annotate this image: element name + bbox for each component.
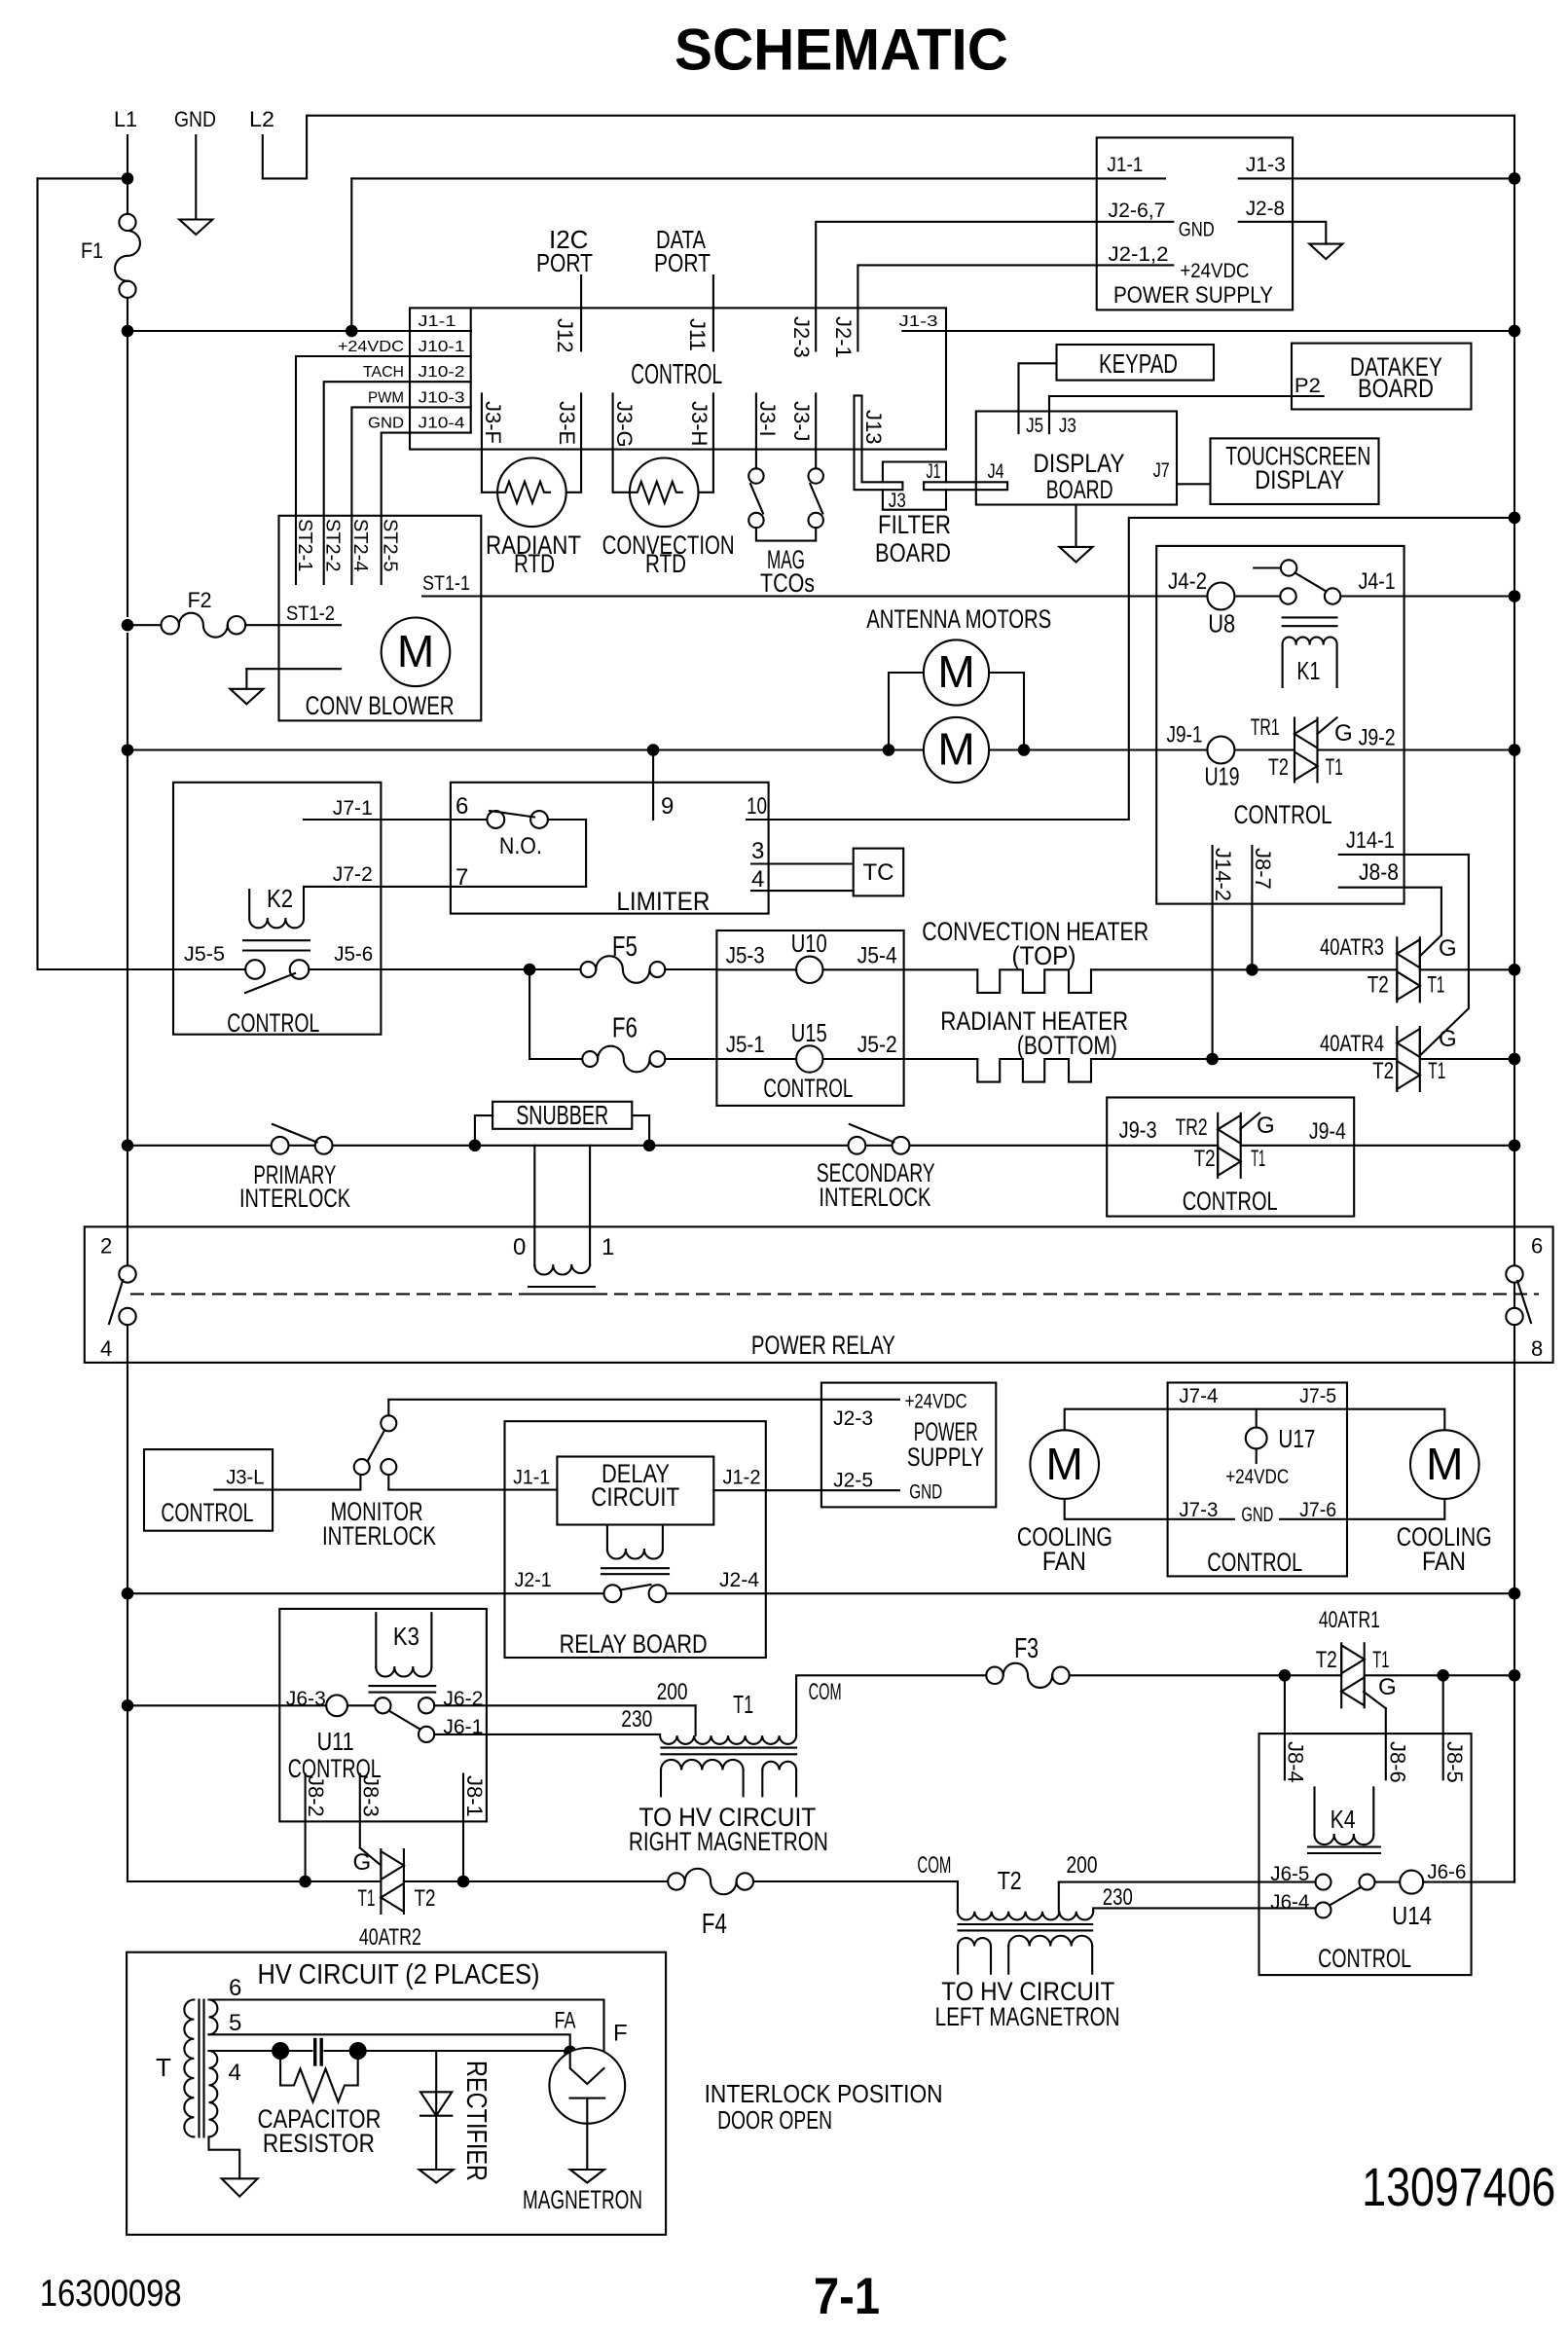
svg-text:J12: J12	[553, 318, 577, 352]
svg-text:U15: U15	[791, 1018, 827, 1047]
svg-text:J10-1: J10-1	[419, 339, 465, 355]
svg-text:J8-8: J8-8	[1359, 859, 1399, 886]
heater radiant element	[904, 1058, 978, 1060]
svg-text:INTERLOCK: INTERLOCK	[239, 1184, 350, 1213]
touchscreen display box	[1211, 438, 1379, 504]
svg-text:SUPPLY: SUPPLY	[907, 1442, 984, 1472]
svg-text:BOARD: BOARD	[1046, 475, 1113, 504]
svg-text:PWM: PWM	[368, 389, 404, 406]
wire left main vertical	[127, 331, 128, 616]
svg-text:INTERLOCK: INTERLOCK	[322, 1521, 436, 1551]
junction interlock bus left	[122, 1140, 134, 1152]
wire F4 to T2 COM	[753, 1880, 958, 1882]
wire relay mechanical link (dashed)	[131, 1293, 529, 1295]
wire J8-8 to 40ATR3 gate	[1339, 888, 1441, 957]
svg-text:F2: F2	[188, 588, 212, 612]
svg-text:T1: T1	[1372, 1647, 1389, 1673]
svg-text:G: G	[1334, 720, 1353, 747]
svg-text:TR1: TR1	[1251, 714, 1280, 741]
svg-text:INTERLOCK POSITION: INTERLOCK POSITION	[705, 2079, 943, 2108]
svg-text:CONTROL: CONTROL	[1183, 1186, 1278, 1216]
fuse F6	[582, 1046, 665, 1073]
fuse F5	[581, 956, 666, 983]
pin J3-G	[613, 393, 630, 492]
junction bus left	[122, 744, 134, 756]
svg-text:J9-2: J9-2	[1359, 724, 1396, 750]
wire hv pin4 line	[209, 2050, 274, 2052]
component U19	[1207, 737, 1234, 764]
svg-text:RESISTOR: RESISTOR	[263, 2129, 375, 2158]
svg-text:J7: J7	[1153, 459, 1170, 482]
svg-text:J9-1: J9-1	[1167, 721, 1203, 748]
control box U10/U15	[716, 931, 903, 1106]
svg-text:+24VDC: +24VDC	[338, 339, 404, 355]
junction convection right bus	[1509, 964, 1521, 976]
svg-text:CONTROL: CONTROL	[161, 1498, 253, 1527]
triac 40ATR4	[1397, 1027, 1420, 1091]
connector J13	[855, 395, 903, 490]
svg-text:J10-4: J10-4	[419, 416, 465, 432]
junction pin10 right bus	[1509, 512, 1521, 525]
snubber box	[492, 1102, 632, 1129]
svg-text:G: G	[1439, 935, 1457, 962]
svg-text:3: 3	[751, 838, 764, 864]
svg-text:J3-H: J3-H	[687, 401, 711, 446]
svg-text:CONTROL: CONTROL	[1318, 1944, 1411, 1973]
wire F3 to 40ATR1	[1070, 1674, 1342, 1676]
junction F1 bottom	[122, 325, 134, 338]
svg-text:J3-L: J3-L	[226, 1467, 264, 1489]
junction J1-3 right	[1509, 325, 1521, 338]
svg-text:U8: U8	[1208, 609, 1235, 639]
svg-text:J3-E: J3-E	[555, 401, 579, 445]
svg-text:U11: U11	[317, 1727, 354, 1756]
svg-text:TR2: TR2	[1176, 1114, 1208, 1141]
switch K4 contact	[1316, 1875, 1375, 1918]
svg-text:J2-1,2: J2-1,2	[1109, 243, 1169, 266]
component U14	[1375, 1871, 1515, 1894]
junction FA node	[564, 2046, 576, 2059]
svg-text:(TOP): (TOP)	[1012, 941, 1076, 970]
svg-text:J1-1: J1-1	[1107, 154, 1143, 176]
wire J6-2 to T1 200 tap	[434, 1704, 695, 1706]
junction F2 left	[122, 619, 134, 632]
wire snubber left stub	[475, 1115, 492, 1146]
ground hv transformer	[222, 2178, 258, 2196]
junction bracket right	[1018, 744, 1031, 756]
pin J12	[580, 275, 582, 350]
resistor CONVECTION RTD	[630, 458, 699, 528]
wire 40ATR1 out	[1365, 1674, 1514, 1676]
svg-text:GND: GND	[174, 107, 216, 131]
wire pin10 to K1-box top bus	[747, 518, 1514, 820]
ground display board	[1075, 505, 1076, 547]
wire GND to ST2-5	[382, 433, 410, 584]
wire T1 COM to F3	[796, 1675, 986, 1735]
junction bracket left	[883, 744, 895, 756]
junction snubber right	[643, 1140, 656, 1152]
svg-text:T2: T2	[1194, 1146, 1216, 1172]
svg-text:RELAY BOARD: RELAY BOARD	[560, 1629, 708, 1659]
svg-text:J10-2: J10-2	[419, 364, 465, 381]
svg-text:RTD: RTD	[645, 549, 686, 578]
transformer T1	[660, 1690, 796, 1796]
svg-text:CIRCUIT: CIRCUIT	[591, 1482, 679, 1512]
junction J8-4 tap	[1279, 1669, 1292, 1682]
svg-text:9: 9	[661, 793, 674, 820]
control box K4/U14	[1259, 1734, 1472, 1975]
thermocouple TC box	[854, 849, 904, 896]
svg-text:PORT: PORT	[654, 248, 711, 277]
svg-text:CONV BLOWER: CONV BLOWER	[306, 691, 455, 720]
fuse F3	[986, 1663, 1069, 1688]
pin J14-2	[1212, 846, 1214, 1059]
pin J8-7	[1251, 846, 1253, 969]
wire J7 to touchscreen	[1177, 483, 1211, 485]
rectifier diode	[420, 2053, 452, 2171]
wire MAG TCO bottoms	[756, 528, 816, 540]
control board U-CONTROL box	[410, 308, 946, 449]
svg-text:J1-3: J1-3	[1246, 154, 1286, 176]
svg-text:+24VDC: +24VDC	[1180, 260, 1249, 282]
motor M conv blower	[382, 618, 451, 687]
svg-text:K4: K4	[1331, 1805, 1356, 1834]
svg-text:CONTROL: CONTROL	[631, 359, 722, 390]
svg-text:HV CIRCUIT (2 PLACES): HV CIRCUIT (2 PLACES)	[258, 1959, 540, 1990]
junction radiant right bus	[1509, 1053, 1521, 1066]
wire power supply J1-1 feeder	[350, 178, 352, 331]
junction J8-2	[299, 1876, 311, 1888]
svg-text:F5: F5	[612, 931, 638, 963]
wire pin4 to TC	[751, 890, 854, 892]
wire T2 230 to J6-4	[1093, 1908, 1315, 1911]
svg-text:40ATR1: 40ATR1	[1319, 1607, 1380, 1633]
resistor RADIANT RTD	[497, 458, 566, 528]
display board box	[976, 412, 1177, 505]
triac 40ATR1	[1341, 1643, 1386, 1708]
svg-text:J2-3: J2-3	[833, 1407, 873, 1430]
wire J2-8 to ground	[1239, 222, 1327, 244]
svg-text:J2-3: J2-3	[789, 316, 814, 358]
wire snubber right stub	[632, 1115, 649, 1146]
svg-text:J4-2: J4-2	[1168, 568, 1207, 595]
wire left vertical to 40ATR2 bus	[127, 1593, 128, 1705]
svg-text:J11: J11	[685, 318, 710, 351]
svg-text:(BOTTOM): (BOTTOM)	[1017, 1031, 1117, 1060]
wire fan top feed	[1065, 1409, 1445, 1431]
wire F2 to ST1-2	[128, 624, 162, 626]
junction J6-3 left	[122, 1699, 134, 1712]
svg-text:LEFT MAGNETRON: LEFT MAGNETRON	[935, 2002, 1120, 2031]
svg-text:13097406: 13097406	[1362, 2156, 1555, 2217]
motor M antenna top	[924, 639, 989, 705]
svg-text:J5: J5	[1026, 415, 1043, 437]
svg-text:U19: U19	[1205, 762, 1240, 791]
pin J2-1 wire from power supply +24VDC	[857, 265, 1173, 350]
svg-text:M: M	[937, 646, 974, 697]
svg-text:KEYPAD: KEYPAD	[1099, 348, 1178, 379]
svg-text:T1: T1	[1251, 1146, 1265, 1172]
wire P2 to display J3	[1049, 395, 1324, 397]
wire PWM to ST2-4	[351, 407, 410, 584]
svg-text:J3-G: J3-G	[612, 401, 637, 448]
wire J2-4 bus	[666, 1592, 1514, 1594]
ground GND arrow	[179, 220, 212, 236]
wire right vertical bus	[1513, 116, 1515, 1881]
heater convection element	[904, 968, 978, 970]
svg-text:230: 230	[1103, 1884, 1133, 1911]
pin J8-4	[1284, 1675, 1286, 1779]
svg-text:J5-2: J5-2	[857, 1032, 897, 1058]
switch N.O.	[487, 811, 547, 828]
svg-text:ST2-2: ST2-2	[322, 519, 344, 571]
svg-text:M: M	[1426, 1439, 1463, 1489]
wire T2 200 to J6-5	[1059, 1881, 1316, 1883]
svg-text:G: G	[1257, 1113, 1275, 1139]
triac TR2	[1218, 1113, 1259, 1178]
svg-text:BOARD: BOARD	[1358, 374, 1434, 403]
svg-text:J9-3: J9-3	[1119, 1117, 1157, 1144]
junction limiter pin9 riser	[647, 744, 660, 756]
junction ST1-1 right bus	[1509, 590, 1521, 602]
component U15	[716, 1045, 903, 1072]
pin J8-6	[1385, 1708, 1387, 1779]
svg-text:J7-1: J7-1	[333, 797, 373, 820]
junction interlock bus right	[1509, 1140, 1521, 1152]
svg-text:4: 4	[751, 866, 764, 893]
svg-text:8: 8	[1531, 1336, 1543, 1361]
fuse F1	[115, 214, 140, 298]
fuse F2	[162, 613, 246, 638]
svg-text:0: 0	[513, 1234, 526, 1260]
wire J3-L to monitor interlock	[214, 1475, 360, 1490]
svg-text:J5-1: J5-1	[726, 1032, 765, 1058]
svg-text:230: 230	[621, 1706, 652, 1733]
svg-text:J7-6: J7-6	[1299, 1499, 1336, 1521]
svg-text:T2: T2	[1316, 1647, 1337, 1673]
svg-text:4: 4	[100, 1336, 112, 1361]
wire antenna bus	[128, 748, 924, 750]
svg-text:TACH: TACH	[363, 364, 404, 381]
motor M cooling fan right	[1410, 1430, 1479, 1499]
wire pin3 to TC	[751, 862, 854, 864]
component U17	[1246, 1409, 1267, 1463]
svg-text:T1: T1	[733, 1690, 753, 1719]
control box U11/K3	[279, 1609, 487, 1822]
ground J2-8 arrow	[1309, 244, 1342, 260]
svg-text:T1: T1	[1428, 1058, 1445, 1084]
pin J3-I	[755, 393, 757, 468]
svg-text:J8-1: J8-1	[462, 1775, 487, 1817]
pin J8-3	[359, 1774, 361, 1848]
svg-text:L1: L1	[114, 107, 137, 131]
relay coil power relay	[529, 1146, 595, 1295]
svg-text:G: G	[353, 1849, 372, 1876]
junction snubber left	[469, 1140, 482, 1152]
ground conv blower	[230, 689, 263, 705]
svg-text:40ATR3: 40ATR3	[1320, 934, 1384, 961]
svg-text:ANTENNA MOTORS: ANTENNA MOTORS	[866, 604, 1051, 634]
svg-text:CONTROL: CONTROL	[1234, 800, 1332, 829]
svg-text:L2: L2	[249, 107, 274, 131]
svg-text:U14: U14	[1392, 1901, 1432, 1930]
svg-text:J8-6: J8-6	[1386, 1741, 1410, 1783]
svg-text:5: 5	[229, 2010, 241, 2036]
svg-text:DISPLAY: DISPLAY	[1255, 465, 1344, 494]
capacitor (hv)	[272, 2040, 367, 2065]
wire radiant to 40ATR4	[1091, 1058, 1397, 1060]
svg-text:J4-1: J4-1	[1359, 568, 1396, 595]
wire blower ground pin	[246, 668, 341, 670]
svg-text:FAN: FAN	[1042, 1547, 1086, 1576]
pin J3-E	[566, 393, 581, 492]
svg-text:J8-7: J8-7	[1251, 848, 1275, 890]
wire F6 out	[665, 1058, 716, 1060]
wire interlock bus	[128, 1145, 272, 1147]
wire 40ATR2 bus	[128, 1705, 381, 1881]
svg-text:GND: GND	[1241, 1504, 1273, 1526]
junction bus right	[1509, 744, 1521, 756]
svg-text:J2-5: J2-5	[833, 1470, 873, 1492]
junction L1-node	[122, 172, 134, 185]
svg-text:T: T	[156, 2053, 171, 2082]
svg-text:TCOs: TCOs	[760, 568, 815, 598]
svg-text:40ATR4: 40ATR4	[1320, 1031, 1384, 1057]
svg-text:+24VDC: +24VDC	[905, 1391, 967, 1413]
svg-text:6: 6	[1531, 1233, 1543, 1258]
pin J8-2	[305, 1774, 307, 1881]
junction 40ATR1 right bus	[1509, 1669, 1521, 1682]
component U11	[326, 1695, 375, 1716]
switch delay relay contact	[604, 1585, 667, 1602]
svg-text:RECTIFIER: RECTIFIER	[460, 2061, 492, 2181]
svg-text:T2: T2	[998, 1866, 1022, 1895]
svg-text:J3-J: J3-J	[789, 401, 814, 442]
pin 9 (limiter)	[652, 750, 654, 821]
svg-text:J5-4: J5-4	[857, 942, 897, 968]
wire hv pin6 to F terminal	[209, 2000, 604, 2069]
svg-text:DOOR OPEN: DOOR OPEN	[717, 2105, 832, 2135]
svg-text:POWER RELAY: POWER RELAY	[751, 1331, 895, 1360]
motor M antenna bottom	[924, 717, 989, 783]
svg-text:J1-2: J1-2	[723, 1467, 761, 1489]
wire J1-2 to PS2 GND	[713, 1489, 899, 1491]
svg-text:F3: F3	[1014, 1633, 1039, 1664]
relay coil delay	[602, 1525, 669, 1575]
svg-text:4: 4	[229, 2060, 241, 2086]
svg-text:MAGNETRON: MAGNETRON	[523, 2185, 642, 2214]
wire GND drop	[195, 135, 197, 220]
svg-text:K2: K2	[267, 884, 293, 913]
svg-text:GND: GND	[1179, 218, 1215, 240]
svg-text:PORT: PORT	[536, 248, 593, 277]
pin J3-F	[482, 393, 497, 492]
control box K1/TR1	[1156, 546, 1404, 904]
resistor (hv)	[280, 2051, 358, 2102]
transformer T2	[958, 1866, 1093, 1974]
junction J8-5 tap	[1437, 1669, 1449, 1682]
wire keypad to display J5	[1019, 363, 1057, 433]
triac 40ATR3	[1397, 937, 1420, 1002]
switch SECONDARY INTERLOCK	[849, 1124, 910, 1154]
wire J6-3 bus	[128, 1704, 326, 1706]
triac 40ATR2	[360, 1848, 404, 1915]
svg-text:J3: J3	[889, 490, 906, 512]
svg-text:BOARD: BOARD	[875, 538, 951, 567]
limiter box	[451, 783, 769, 914]
pin J8-5	[1442, 1675, 1444, 1779]
svg-text:T2: T2	[1367, 971, 1389, 998]
wire J5-6 to F5	[309, 968, 579, 970]
svg-text:COM: COM	[809, 1679, 842, 1705]
svg-text:N.O.: N.O.	[499, 833, 542, 859]
wire L2 to top bus	[263, 116, 1514, 179]
svg-text:J3-I: J3-I	[755, 401, 780, 437]
svg-text:J2-4: J2-4	[719, 1569, 759, 1591]
svg-text:J8-3: J8-3	[359, 1775, 383, 1817]
svg-text:T1: T1	[1428, 971, 1445, 998]
svg-text:J2-6,7: J2-6,7	[1109, 200, 1166, 222]
svg-text:J7-5: J7-5	[1299, 1385, 1336, 1407]
svg-text:T1: T1	[1326, 754, 1343, 781]
wire F5 out	[665, 968, 716, 970]
wire J6-1 to T1 230 tap	[434, 1734, 660, 1735]
wire F6 branch	[529, 969, 582, 1059]
component U8	[1207, 583, 1234, 610]
hv circuit box	[127, 1953, 666, 2235]
svg-text:ST2-4: ST2-4	[349, 519, 371, 571]
wire J7-1 to limiter pin6	[304, 819, 451, 821]
svg-text:GND: GND	[909, 1481, 942, 1504]
wire J1-3 to right bus	[902, 330, 1514, 332]
switch MAG TCO right	[809, 468, 823, 528]
svg-text:200: 200	[657, 1679, 688, 1705]
svg-text:M: M	[397, 626, 434, 676]
junction J8-1	[457, 1876, 470, 1888]
svg-text:COM: COM	[917, 1852, 951, 1879]
ground rectifier	[419, 2170, 454, 2183]
svg-text:TC: TC	[863, 859, 894, 886]
control box J3-L	[144, 1449, 273, 1531]
svg-text:ST1-1: ST1-1	[422, 572, 470, 595]
connector ladder J1/J10	[470, 308, 472, 432]
control box TR2	[1107, 1098, 1354, 1217]
svg-text:10: 10	[747, 793, 767, 820]
svg-text:CONTROL: CONTROL	[763, 1074, 853, 1103]
junction +24 feeder	[346, 325, 358, 338]
junction J8-7 convection	[1246, 964, 1258, 976]
connector J1 (filter)	[924, 482, 1007, 490]
wire monitor interlock to +24VDC	[388, 1400, 899, 1416]
svg-text:T2: T2	[1268, 754, 1289, 781]
magnetron tube	[549, 2048, 625, 2170]
svg-text:ST2-5: ST2-5	[380, 519, 401, 571]
junction J2-1 left	[122, 1588, 134, 1600]
relay coil K2	[243, 884, 310, 951]
svg-text:P2: P2	[1295, 375, 1321, 397]
svg-text:J14-1: J14-1	[1346, 827, 1395, 854]
svg-text:G: G	[1439, 1026, 1457, 1052]
triac TR1	[1295, 717, 1337, 782]
svg-text:J13: J13	[861, 410, 886, 444]
svg-text:J2-1: J2-1	[515, 1569, 552, 1591]
relay coil K1	[1283, 617, 1337, 687]
switch K1 contacts	[1254, 560, 1340, 603]
relay coil K3	[370, 1613, 436, 1692]
svg-text:K1: K1	[1296, 656, 1320, 685]
svg-text:F1: F1	[81, 238, 103, 263]
svg-text:J5-5: J5-5	[184, 943, 225, 966]
